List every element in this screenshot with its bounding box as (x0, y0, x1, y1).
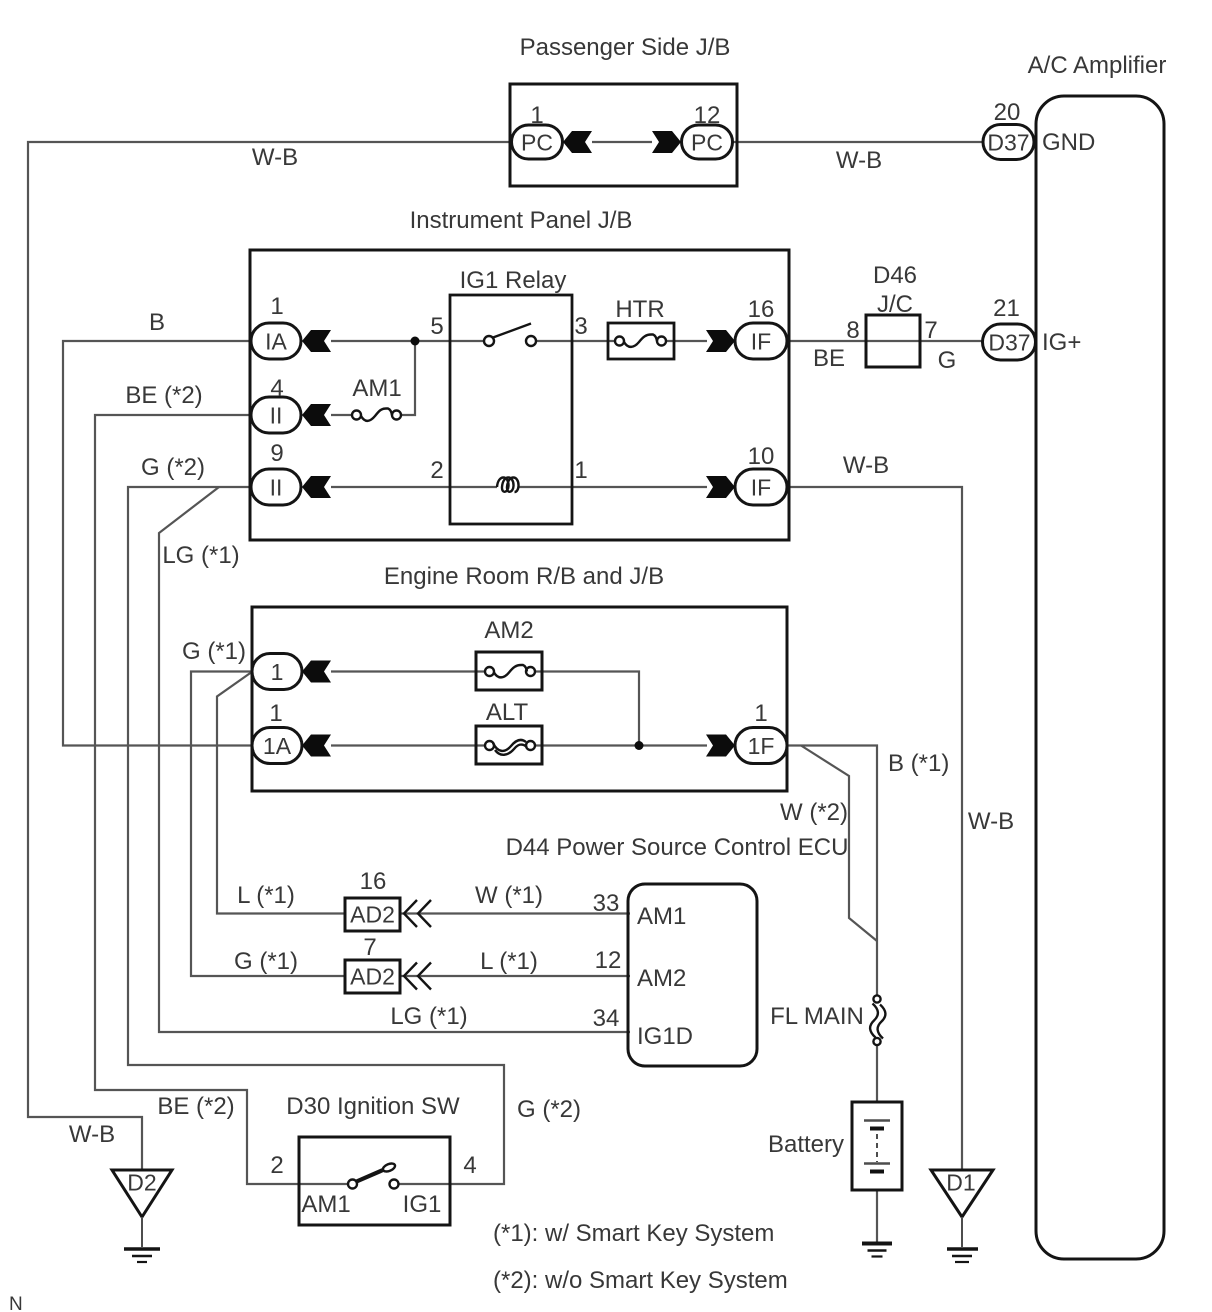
svg-text:12: 12 (595, 947, 622, 974)
arrow into 1F (706, 735, 735, 757)
svg-text:G: G (938, 347, 957, 374)
svg-text:W-B: W-B (836, 147, 882, 174)
arrow into engine oval1 (302, 661, 331, 683)
AM2 fuse element (485, 665, 535, 677)
arrow into IA (302, 330, 331, 352)
svg-text:20: 20 (994, 99, 1021, 126)
ALT fusible link box (476, 726, 542, 764)
chevrons at AD2-7 (404, 963, 431, 990)
svg-text:IF: IF (751, 475, 771, 501)
wire PC1 to PC12 inside Passenger J/B (592, 141, 652, 143)
svg-text:7: 7 (363, 934, 376, 961)
svg-text:2: 2 (270, 1152, 283, 1179)
wire G (*2) from II-9 to ignition SW pin4 (128, 487, 504, 1184)
AM2 fuse box (476, 652, 542, 690)
Passenger Side J/B box (510, 84, 737, 186)
wire B (*1) from 1F down to FL MAIN and battery (786, 746, 877, 1245)
wire B from IA to 1A (63, 341, 253, 746)
connector PC1 oval (512, 125, 563, 159)
ignition switch contacts (348, 1180, 399, 1189)
svg-text:W-B: W-B (69, 1121, 115, 1148)
svg-text:BE (*2): BE (*2) (157, 1093, 234, 1120)
svg-text:IG+: IG+ (1042, 329, 1081, 356)
wire AD2-7 row to ECU AM2 (400, 975, 630, 977)
svg-text:(*2): w/o Smart Key System: (*2): w/o Smart Key System (493, 1267, 788, 1294)
svg-text:FL MAIN: FL MAIN (770, 1003, 864, 1030)
svg-text:G (*1): G (*1) (182, 638, 246, 665)
svg-text:1: 1 (530, 102, 543, 129)
arrow into IF10 (706, 476, 735, 498)
wire IA row to relay pin5 and switch (331, 340, 485, 342)
AD2-16 connector box (345, 898, 400, 931)
svg-text:2: 2 (430, 457, 443, 484)
wire AD2-16 row to ECU AM1 (400, 912, 630, 914)
svg-text:D1: D1 (946, 1170, 975, 1196)
svg-text:PC: PC (521, 130, 553, 156)
Battery box (852, 1102, 902, 1190)
svg-text:L (*1): L (*1) (237, 882, 295, 909)
battery ground symbol (862, 1244, 892, 1257)
svg-text:PC: PC (691, 130, 723, 156)
wire AM2 fuse row (331, 672, 639, 746)
svg-text:4: 4 (463, 1152, 476, 1179)
svg-text:II: II (270, 403, 283, 429)
svg-text:G (*1): G (*1) (234, 948, 298, 975)
svg-text:W (*2): W (*2) (780, 799, 848, 826)
svg-text:16: 16 (748, 296, 775, 323)
relay coil (497, 478, 519, 493)
svg-text:7: 7 (924, 317, 937, 344)
wire HTR to IF16 arrow (665, 340, 707, 342)
wire W-B from IF10 to D1 ground (786, 487, 962, 1172)
wire BE (*2) from II-4 to ignition SW pin2 (95, 415, 349, 1184)
svg-text:Engine Room R/B and J/B: Engine Room R/B and J/B (384, 563, 664, 590)
svg-text:IF: IF (751, 329, 771, 355)
wire ALT row 1A to 1F (331, 744, 707, 746)
svg-text:W-B: W-B (843, 452, 889, 479)
svg-text:GND: GND (1042, 129, 1095, 156)
svg-text:AM1: AM1 (352, 375, 401, 402)
svg-text:4: 4 (270, 375, 283, 402)
svg-text:Battery: Battery (768, 1131, 844, 1158)
svg-text:D44 Power Source Control ECU: D44 Power Source Control ECU (506, 834, 849, 861)
wire relay pin3 to HTR (535, 340, 615, 342)
svg-text:IG1 Relay: IG1 Relay (460, 267, 567, 294)
svg-text:W (*1): W (*1) (475, 882, 543, 909)
arrow into PC12 (652, 131, 681, 153)
wire L (*1) diagonal from oval1 to AD2-16 (217, 673, 346, 914)
svg-text:G (*2): G (*2) (517, 1096, 581, 1123)
svg-text:AM2: AM2 (637, 965, 686, 992)
IG1 Relay box (450, 295, 572, 524)
HTR fuse box (608, 323, 674, 359)
connector IA oval (251, 323, 301, 359)
svg-text:AD2: AD2 (350, 964, 395, 990)
connector 1F oval (735, 728, 787, 764)
relay switch contacts (484, 324, 536, 347)
svg-text:D37: D37 (987, 130, 1029, 156)
svg-text:1: 1 (270, 293, 283, 320)
svg-text:W-B: W-B (252, 144, 298, 171)
svg-text:1: 1 (269, 700, 282, 727)
svg-text:1: 1 (271, 659, 284, 685)
svg-text:J/C: J/C (877, 291, 913, 318)
D46 J/C box (866, 315, 920, 367)
svg-text:G (*2): G (*2) (141, 454, 205, 481)
svg-text:N: N (9, 1294, 23, 1312)
svg-text:1A: 1A (263, 733, 292, 759)
svg-text:A/C Amplifier: A/C Amplifier (1028, 52, 1167, 79)
wire W-B from PC12 to D37-20 (732, 141, 984, 143)
svg-text:AD2: AD2 (350, 902, 395, 928)
D30 Ignition SW box (299, 1137, 450, 1225)
Instrument Panel J/B box (250, 250, 789, 540)
D1 ground symbol (947, 1249, 978, 1262)
svg-text:LG (*1): LG (*1) (390, 1003, 467, 1030)
AM1 fuse element (352, 409, 401, 421)
svg-text:AM1: AM1 (301, 1191, 350, 1218)
svg-text:L (*1): L (*1) (480, 948, 538, 975)
svg-text:D2: D2 (127, 1170, 156, 1196)
HTR fuse element (615, 335, 666, 347)
svg-text:BE (*2): BE (*2) (125, 382, 202, 409)
svg-text:D30 Ignition SW: D30 Ignition SW (286, 1093, 460, 1120)
svg-text:10: 10 (748, 443, 775, 470)
svg-text:1: 1 (574, 457, 587, 484)
svg-text:HTR: HTR (615, 296, 664, 323)
svg-text:5: 5 (430, 313, 443, 340)
svg-text:1: 1 (754, 700, 767, 727)
arrow into 1A (302, 735, 331, 757)
svg-text:IG1: IG1 (403, 1191, 442, 1218)
Engine Room R/B and J/B box (252, 607, 787, 791)
FL MAIN fusible link (870, 995, 885, 1045)
connector PC12 oval (682, 125, 733, 159)
junction dot IA row (411, 337, 420, 346)
svg-text:AM1: AM1 (637, 903, 686, 930)
svg-text:B (*1): B (*1) (888, 750, 949, 777)
connector II pin4 oval (251, 397, 301, 433)
svg-text:33: 33 (593, 890, 620, 917)
svg-text:II: II (270, 475, 283, 501)
svg-text:IG1D: IG1D (637, 1023, 693, 1050)
connector IF pin16 oval (735, 323, 787, 359)
arrow into IF16 (706, 330, 735, 352)
svg-text:16: 16 (360, 868, 387, 895)
ignition switch lever (357, 1162, 397, 1182)
svg-text:AM2: AM2 (484, 617, 533, 644)
wire W-B from PC1 to D2 ground (28, 142, 512, 1172)
AD2-7 connector box (345, 960, 400, 993)
ALT fusible link element (485, 740, 535, 755)
svg-text:3: 3 (574, 313, 587, 340)
A/C Amplifier box (1036, 96, 1164, 1259)
svg-text:12: 12 (694, 102, 721, 129)
svg-text:BE: BE (813, 345, 845, 372)
svg-text:9: 9 (270, 440, 283, 467)
connector IF pin10 oval (735, 469, 787, 505)
svg-text:ALT: ALT (486, 699, 529, 726)
chevrons at AD2-16 (404, 900, 431, 927)
D44 Power Source Control ECU box (628, 884, 757, 1066)
svg-text:Instrument Panel J/B: Instrument Panel J/B (410, 207, 633, 234)
connector 1 oval engine room (252, 654, 302, 690)
D2 ground triangle (112, 1170, 172, 1247)
connector II pin9 oval (251, 469, 301, 505)
svg-text:21: 21 (993, 295, 1020, 322)
svg-text:1F: 1F (748, 733, 775, 759)
svg-text:B: B (149, 309, 165, 336)
D2 ground symbol (124, 1249, 160, 1262)
svg-text:34: 34 (593, 1005, 620, 1032)
svg-text:IA: IA (265, 329, 287, 355)
wire AM1 fuse branch to junction (331, 342, 415, 415)
arrow into II-9 (302, 476, 331, 498)
svg-text:W-B: W-B (968, 808, 1014, 835)
wire G (*1) from engine oval1 to AD2-7 (191, 672, 346, 977)
battery cell plates (864, 1121, 890, 1172)
connector D37 pin21 oval (983, 324, 1036, 360)
junction dot ALT row (635, 741, 644, 750)
wire II-9 row to relay pin2 coil (331, 486, 707, 488)
svg-text:Passenger Side J/B: Passenger Side J/B (520, 34, 731, 61)
arrow into PC1 (563, 131, 592, 153)
svg-text:D46: D46 (873, 262, 917, 289)
wire W (*2) diagonal branch (801, 746, 877, 942)
wire LG (*1) from II-9 to ECU IG1D (159, 487, 630, 1032)
svg-text:LG (*1): LG (*1) (162, 542, 239, 569)
D1 ground triangle (931, 1170, 993, 1247)
wire IF16 to D46 pin8 to D37-21, BE/G net (786, 340, 985, 342)
svg-text:D37: D37 (988, 330, 1030, 356)
arrow into II-4 (302, 404, 331, 426)
svg-text:8: 8 (846, 317, 859, 344)
connector 1A oval (252, 728, 302, 764)
svg-text:(*1): w/ Smart Key System: (*1): w/ Smart Key System (493, 1220, 774, 1247)
connector D37 pin20 oval (983, 125, 1034, 160)
